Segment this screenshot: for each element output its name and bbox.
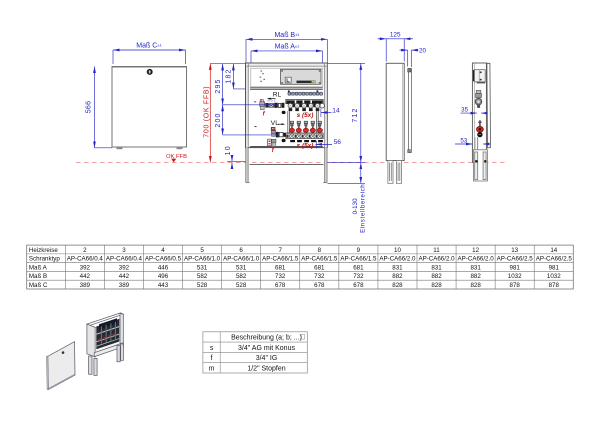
- VL red thermostat caps: [289, 128, 322, 132]
- leader 14: [321, 108, 340, 115]
- svg-text:828: 828: [431, 282, 442, 289]
- dimension Mass A: [251, 51, 322, 63]
- svg-text:m: m: [209, 365, 215, 372]
- divider rail: [250, 88, 323, 90]
- OK FFB label: [166, 154, 187, 163]
- VL end blue centre tick: [315, 141, 317, 149]
- floor line OK FFB (red dashed): [76, 162, 508, 164]
- riser pipes between manifolds: [288, 111, 318, 133]
- RL manifold bar: [286, 99, 325, 111]
- svg-text:442: 442: [80, 273, 91, 280]
- dimension 125: [378, 39, 414, 62]
- svg-text:681: 681: [353, 264, 364, 271]
- cabinet legs below: [246, 148, 248, 183]
- dimension 10: [227, 155, 246, 169]
- svg-text:700 (OK FFB): 700 (OK FFB): [203, 86, 210, 138]
- svg-text:678: 678: [314, 282, 325, 289]
- svg-text:10: 10: [394, 247, 401, 254]
- dimension 712: [327, 63, 365, 162]
- door lock: [147, 69, 153, 75]
- svg-text:Maß B±1: Maß B±1: [274, 32, 300, 39]
- svg-text:389: 389: [119, 282, 130, 289]
- svg-text:878: 878: [510, 282, 521, 289]
- svg-text:200: 200: [215, 112, 222, 127]
- leader 56: [316, 139, 342, 146]
- dimension 295: [222, 64, 224, 105]
- dimension 182: [233, 64, 250, 89]
- wall tick RL: [254, 101, 256, 102]
- svg-text:12: 12: [472, 247, 479, 254]
- svg-text:AP-CA66/2.0: AP-CA66/2.0: [379, 256, 416, 263]
- svg-text:566: 566: [86, 101, 93, 114]
- svg-text:AP-CA66/2.0: AP-CA66/2.0: [418, 256, 455, 263]
- svg-text:s (5x): s (5x): [297, 112, 314, 119]
- svg-text:AP-CA66/2.5: AP-CA66/2.5: [536, 256, 573, 263]
- svg-text:0-130: 0-130: [352, 198, 359, 214]
- side view 1 feet: [388, 161, 402, 184]
- svg-text:f: f: [211, 355, 213, 362]
- svg-text:4: 4: [161, 247, 165, 254]
- svg-text:AP-CA66/0.4: AP-CA66/0.4: [67, 256, 104, 263]
- svg-text:AP-CA66/2.5: AP-CA66/2.5: [497, 256, 534, 263]
- svg-text:389: 389: [80, 282, 91, 289]
- side view 2 VL valve (red head): [476, 120, 483, 137]
- dimension 566: [95, 67, 113, 148]
- svg-text:AP-CA66/0.5: AP-CA66/0.5: [145, 256, 182, 263]
- interior dark manifold mass: [96, 319, 119, 349]
- svg-text:831: 831: [392, 264, 403, 271]
- svg-text:7: 7: [278, 247, 282, 254]
- svg-text:712: 712: [352, 107, 359, 122]
- svg-text:831: 831: [431, 264, 442, 271]
- svg-text:Maß B: Maß B: [29, 273, 47, 280]
- side view 2 legs: [473, 150, 487, 181]
- svg-text:582: 582: [236, 273, 247, 280]
- svg-text:Maß C±1: Maß C±1: [136, 43, 162, 50]
- svg-text:531: 531: [197, 264, 208, 271]
- VL axis line: [223, 134, 279, 136]
- svg-text:3/4" IG: 3/4" IG: [256, 355, 278, 362]
- svg-text:182: 182: [226, 68, 233, 83]
- svg-text:35: 35: [461, 107, 468, 114]
- svg-text:AP-CA66/0.4: AP-CA66/0.4: [106, 256, 143, 263]
- svg-text:VL: VL: [271, 120, 279, 127]
- svg-text:882: 882: [470, 273, 481, 280]
- VL manifold bar: [286, 133, 323, 142]
- RL axis line: [223, 104, 278, 106]
- front door: [112, 67, 187, 150]
- cabinet frame (open view): [246, 63, 328, 148]
- svg-text:1/2" Stopfen: 1/2" Stopfen: [247, 365, 285, 372]
- svg-text:3/4" AG mit Konus: 3/4" AG mit Konus: [238, 345, 295, 352]
- svg-text:681: 681: [275, 264, 286, 271]
- controller compartment: [251, 68, 323, 87]
- svg-text:446: 446: [158, 264, 169, 271]
- svg-text:OK FFB: OK FFB: [166, 154, 187, 160]
- RL left isolation valve assembly: [260, 98, 285, 117]
- svg-text:13: 13: [511, 247, 518, 254]
- side view 2 hanging bracket: [474, 70, 486, 84]
- svg-text:295: 295: [215, 78, 222, 93]
- svg-text:981: 981: [549, 264, 560, 271]
- side view 1 door panel: [408, 69, 412, 153]
- svg-text:732: 732: [275, 273, 286, 280]
- wall tick VL: [254, 126, 256, 127]
- svg-text:s (5x): s (5x): [297, 143, 314, 150]
- dimension 700 (OK FFB) red: [210, 63, 245, 162]
- svg-text:AP-CA66/1.5: AP-CA66/1.5: [301, 256, 338, 263]
- svg-text:878: 878: [549, 282, 560, 289]
- svg-text:AP-CA66/1.0: AP-CA66/1.0: [223, 256, 260, 263]
- RL drain knob: [282, 111, 286, 114]
- RL end blue centre tick: [320, 109, 322, 118]
- svg-text:11: 11: [433, 247, 440, 254]
- legs: [89, 344, 124, 375]
- svg-text:9: 9: [357, 247, 361, 254]
- side view 2 pipes: [475, 137, 478, 160]
- side view 1 body: [386, 63, 404, 162]
- RL label: [267, 92, 282, 100]
- svg-text:125: 125: [390, 31, 401, 38]
- interior red actuators: [99, 334, 115, 341]
- svg-text:s: s: [210, 345, 214, 352]
- side view 2 RL valve: [475, 90, 482, 107]
- interior light gaps: [97, 326, 120, 347]
- svg-text:732: 732: [353, 273, 364, 280]
- svg-text:392: 392: [119, 264, 130, 271]
- dimension 53: [455, 143, 489, 145]
- svg-text:AP-CA66/1.5: AP-CA66/1.5: [340, 256, 377, 263]
- svg-text:582: 582: [197, 273, 208, 280]
- svg-text:f: f: [272, 148, 275, 154]
- svg-text:AP-CA66/1.5: AP-CA66/1.5: [262, 256, 299, 263]
- right wall: [120, 313, 123, 346]
- svg-text:14: 14: [550, 247, 557, 254]
- svg-text:882: 882: [392, 273, 403, 280]
- svg-text:Maß A±1: Maß A±1: [275, 43, 300, 50]
- svg-text:10: 10: [225, 145, 232, 155]
- svg-text:732: 732: [314, 273, 325, 280]
- svg-text:528: 528: [197, 282, 208, 289]
- svg-text:Heizkreise: Heizkreise: [29, 247, 58, 254]
- dimension 20: [400, 50, 419, 67]
- svg-text:828: 828: [392, 282, 403, 289]
- svg-text:Einstellbereich: Einstellbereich: [360, 184, 367, 233]
- RL manifold valve caps row: [288, 90, 323, 95]
- svg-text:1032: 1032: [547, 273, 561, 280]
- svg-text:392: 392: [80, 264, 91, 271]
- svg-text:8: 8: [318, 247, 322, 254]
- top strip: [87, 313, 123, 326]
- side view 2 door (slightly open): [487, 63, 491, 148]
- svg-text:681: 681: [314, 264, 325, 271]
- svg-text:AP-CA66/2.0: AP-CA66/2.0: [458, 256, 495, 263]
- side view 2 wall rail (dark): [473, 70, 474, 81]
- svg-text:a b c: a b c: [268, 98, 276, 102]
- svg-text:2: 2: [83, 247, 87, 254]
- dimension 200: [222, 105, 224, 135]
- svg-text:5: 5: [200, 247, 204, 254]
- svg-text:56: 56: [334, 139, 342, 146]
- VL label: [271, 120, 285, 127]
- svg-text:443: 443: [158, 282, 169, 289]
- svg-text:53: 53: [460, 137, 467, 144]
- svg-text:831: 831: [470, 264, 481, 271]
- svg-text:442: 442: [119, 273, 130, 280]
- svg-text:3: 3: [122, 247, 126, 254]
- bottom band: [94, 343, 123, 357]
- dimension 0-130 Einstellbereich: [328, 163, 366, 184]
- svg-text:1032: 1032: [508, 273, 522, 280]
- svg-text:6: 6: [239, 247, 243, 254]
- svg-text:828: 828: [470, 282, 481, 289]
- VL T-handles: [290, 121, 321, 128]
- svg-text:AP-CA66/1.0: AP-CA66/1.0: [184, 256, 221, 263]
- svg-text:531: 531: [236, 264, 247, 271]
- svg-text:528: 528: [236, 282, 247, 289]
- VL drain knob: [282, 139, 286, 142]
- VL left isolation valve assembly: [268, 127, 286, 154]
- interior: [95, 319, 120, 353]
- svg-text:678: 678: [275, 282, 286, 289]
- svg-text:Maß C: Maß C: [29, 282, 48, 289]
- svg-text:Maß A: Maß A: [29, 264, 48, 271]
- dimension 35: [461, 112, 488, 114]
- svg-text:981: 981: [510, 264, 521, 271]
- left face: [87, 324, 95, 357]
- svg-text:882: 882: [431, 273, 442, 280]
- side view 2 body: [472, 63, 486, 163]
- svg-text:Beschreibung (a; b; ...): Beschreibung (a; b; ...): [231, 335, 302, 342]
- svg-text:20: 20: [419, 48, 427, 55]
- interior vertical pipes (light slits): [101, 322, 116, 344]
- svg-text:496: 496: [158, 273, 169, 280]
- dimension Mass C: [113, 50, 186, 64]
- dimension Mass B: [246, 39, 327, 62]
- interior controller dark unit: [99, 318, 117, 329]
- svg-text:678: 678: [353, 282, 364, 289]
- svg-text:14: 14: [332, 108, 340, 115]
- svg-text:Schranktyp: Schranktyp: [29, 256, 61, 263]
